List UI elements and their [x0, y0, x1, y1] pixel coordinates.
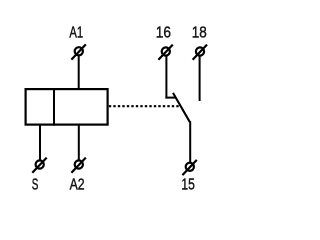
relay coil box K1: [26, 89, 108, 125]
switch lever (changeover contact): [173, 93, 190, 122]
wire lever to 15: [189, 121, 191, 167]
terminal S: [32, 158, 46, 173]
terminal A2: [71, 158, 85, 173]
terminal 18: [193, 45, 207, 60]
svg-text:18: 18: [192, 25, 207, 42]
contact seat foot at 16: [165, 97, 175, 99]
terminal 16: [158, 45, 172, 60]
svg-text:A1: A1: [69, 25, 83, 42]
wire box to S: [39, 125, 41, 165]
terminal 15: [182, 160, 196, 175]
wire 16 to contact seat: [165, 52, 167, 99]
coil box divider: [53, 88, 55, 126]
terminal A1: [71, 44, 85, 59]
wire box to A2: [78, 125, 80, 165]
svg-text:A2: A2: [70, 177, 85, 194]
svg-text:S: S: [32, 177, 39, 194]
svg-text:16: 16: [156, 25, 171, 42]
svg-text:15: 15: [181, 177, 195, 194]
dotted actuation link from coil to lever: [109, 105, 180, 107]
wire A1 to box: [78, 51, 80, 89]
wire 18 stub: [199, 52, 201, 102]
